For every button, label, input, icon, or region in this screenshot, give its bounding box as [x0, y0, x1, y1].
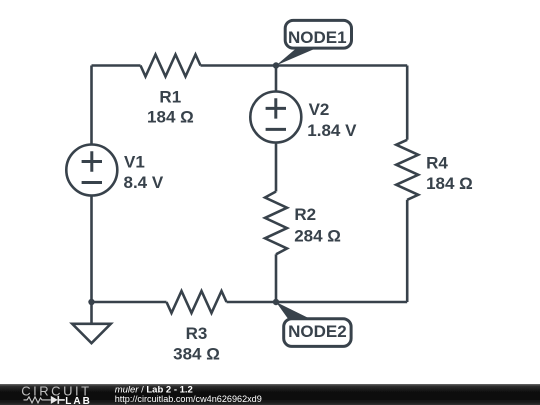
voltage source V1	[66, 145, 117, 196]
svg-text:R1: R1	[159, 88, 181, 107]
svg-text:1.84 V: 1.84 V	[307, 121, 357, 140]
ground	[72, 324, 111, 343]
junction dot node2	[273, 299, 279, 305]
wire: top horizontal right segment	[201, 64, 408, 67]
resistor R2	[265, 192, 287, 255]
svg-text:384 Ω: 384 Ω	[173, 345, 220, 364]
junction dot ground	[88, 299, 94, 305]
svg-text:R4: R4	[426, 153, 448, 172]
svg-text:8.4 V: 8.4 V	[124, 173, 164, 192]
wire: middle vertical lower segment	[275, 254, 278, 302]
wire: right vertical lower segment	[406, 200, 409, 302]
wire: bottom horizontal right segment	[227, 301, 408, 304]
svg-text:R2: R2	[294, 205, 316, 224]
wire: top horizontal left segment	[92, 64, 141, 67]
svg-text:NODE1: NODE1	[288, 28, 347, 47]
wire: right vertical upper segment	[406, 66, 409, 140]
wire: ground stub	[90, 302, 93, 323]
CircuitLab logo diode	[51, 396, 58, 404]
node NODE1 flag box	[285, 20, 351, 48]
node NODE1 flag tail	[276, 49, 316, 66]
resistor R1	[141, 55, 201, 77]
svg-text:184 Ω: 184 Ω	[147, 108, 194, 127]
svg-text:V2: V2	[309, 100, 330, 119]
wire: left vertical (V1 branch)	[90, 66, 93, 303]
footer bar	[0, 384, 540, 405]
wire: middle vertical upper segment (V2 branch)	[275, 66, 278, 192]
voltage source V2	[250, 92, 301, 143]
resistor R4	[396, 140, 418, 200]
svg-text:284 Ω: 284 Ω	[294, 226, 341, 245]
node NODE2 flag tail	[276, 302, 310, 319]
svg-text:http://circuitlab.com/cw4n6269: http://circuitlab.com/cw4n626962xd9	[115, 394, 262, 404]
resistor R3	[167, 291, 227, 313]
wire: bottom horizontal left segment	[92, 301, 167, 304]
svg-text:V1: V1	[124, 152, 145, 171]
svg-text:R3: R3	[186, 324, 208, 343]
svg-text:NODE2: NODE2	[288, 322, 347, 341]
CircuitLab logo resistor squiggle	[24, 397, 51, 403]
svg-text:184 Ω: 184 Ω	[426, 174, 473, 193]
svg-text:LAB: LAB	[65, 396, 92, 405]
node NODE2 flag box	[284, 319, 351, 347]
junction dot node1	[273, 62, 279, 68]
